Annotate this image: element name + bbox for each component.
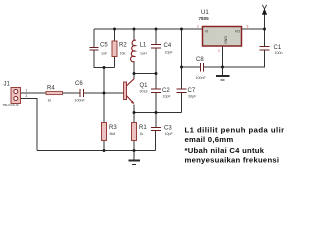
svg-text:10pF: 10pF <box>163 95 172 99</box>
junction U1 output / antenna / C1 <box>263 28 266 31</box>
svg-text:C2: C2 <box>162 88 170 94</box>
node emitter of Q1 <box>133 111 136 114</box>
wire J1 pin2 down <box>21 99 38 151</box>
node base of Q1 <box>103 92 106 95</box>
svg-text:1k: 1k <box>48 99 52 103</box>
svg-text:2: 2 <box>26 94 28 98</box>
wire C6 to base node <box>84 92 104 94</box>
junction supply rail / L1 <box>133 28 136 31</box>
svg-text:L1 dililit penuh pada ulir: L1 dililit penuh pada ulir <box>185 126 285 135</box>
wire gnd row to C1 <box>223 51 265 68</box>
antenna <box>262 5 267 15</box>
svg-text:C3: C3 <box>164 126 172 132</box>
svg-text:9018: 9018 <box>140 90 148 94</box>
wire C4 top lead <box>155 29 157 44</box>
svg-text:menyesuaikan frekuensi: menyesuaikan frekuensi <box>185 156 280 165</box>
svg-text:C6: C6 <box>75 81 83 87</box>
svg-text:10pF: 10pF <box>165 51 174 55</box>
svg-text:R1: R1 <box>139 125 147 131</box>
wire U1 out to antenna node <box>242 28 265 30</box>
resistor R3 <box>102 123 107 141</box>
svg-text:1: 1 <box>26 89 28 93</box>
wire R2 bottom lead <box>114 57 116 68</box>
resistor R4 <box>46 91 63 94</box>
svg-text:email 0,6mm: email 0,6mm <box>185 135 234 144</box>
junction C2 / C3 / emitter row <box>155 111 158 114</box>
junction R3 / bottom rail <box>103 149 106 152</box>
wire base lead <box>104 92 124 94</box>
capacitor C7 <box>177 89 187 93</box>
svg-text:R2: R2 <box>119 43 127 49</box>
wire L1 bottom lead <box>133 62 135 74</box>
wire C1 top lead <box>264 29 266 46</box>
svg-text:J1: J1 <box>4 82 11 88</box>
capacitor C6 <box>80 89 84 97</box>
wire C4 bottom lead <box>155 49 157 74</box>
svg-text:VO: VO <box>235 30 240 34</box>
svg-text:1: 1 <box>197 25 199 29</box>
junction U1 GND / ground line <box>221 66 224 69</box>
svg-text:1uH: 1uH <box>140 52 147 56</box>
wire R3 top lead <box>103 93 105 123</box>
svg-text:30pF: 30pF <box>188 95 197 99</box>
wire R4 to C6 <box>63 92 80 94</box>
wire bottom rail <box>37 150 156 152</box>
svg-text:10k: 10k <box>120 52 126 56</box>
svg-text:100nF: 100nF <box>75 99 86 103</box>
wire R2 top lead <box>114 29 116 41</box>
transistor Q1 <box>124 79 134 104</box>
wire C7 bottom lead <box>181 93 183 113</box>
svg-text:VI: VI <box>205 30 208 34</box>
wire R3 bottom lead <box>103 141 105 151</box>
svg-text:100n: 100n <box>275 51 283 55</box>
svg-text:TBLOCK-I2: TBLOCK-I2 <box>3 103 19 107</box>
svg-text:L1: L1 <box>140 43 147 49</box>
svg-text:6k8: 6k8 <box>110 132 116 136</box>
wire L1 top lead <box>133 29 135 40</box>
svg-text:C5: C5 <box>100 43 108 49</box>
svg-text:C8: C8 <box>196 57 204 63</box>
svg-text:C7: C7 <box>188 88 196 94</box>
wire emitter lead <box>133 105 135 113</box>
svg-text:R4: R4 <box>47 86 55 92</box>
resistor R1 <box>132 123 137 141</box>
junction supply rail / C4 <box>155 28 158 31</box>
svg-text:C4: C4 <box>164 43 172 49</box>
svg-text:1k: 1k <box>140 132 144 136</box>
wire base column <box>103 68 105 94</box>
connector J1 <box>11 88 21 104</box>
svg-text:10pF: 10pF <box>165 132 174 136</box>
resistor R2 <box>112 41 117 57</box>
wire J1 pin1 to R4 <box>21 92 47 94</box>
wire collector lead <box>133 74 135 80</box>
wire C3 bottom lead <box>155 131 157 151</box>
svg-text:3: 3 <box>247 25 249 29</box>
svg-text:1uF: 1uF <box>101 52 108 56</box>
svg-text:GND: GND <box>224 36 228 44</box>
junction C5 / R2 / base column <box>103 66 106 69</box>
wire emitter row <box>134 112 182 114</box>
svg-text:Q1: Q1 <box>140 83 149 89</box>
wire C5 top lead <box>93 29 95 47</box>
wire C5 bottom lead <box>94 50 115 68</box>
wire top rail <box>94 28 203 30</box>
wire C3 top lead <box>155 113 157 128</box>
svg-text:*Ubah nilai C4 untuk: *Ubah nilai C4 untuk <box>185 146 265 155</box>
svg-text:R3: R3 <box>109 125 117 131</box>
svg-text:100nF: 100nF <box>196 76 207 80</box>
junction L1 / collector <box>133 72 136 75</box>
ground bottom rail <box>129 151 141 165</box>
wire R1 leads <box>133 113 135 123</box>
capacitor C1 <box>260 47 270 51</box>
capacitor C4 <box>151 45 161 49</box>
capacitor C8 <box>201 63 204 72</box>
svg-text:7805: 7805 <box>199 16 210 21</box>
wire ground row C8 <box>182 66 201 68</box>
capacitor C3 <box>151 128 161 131</box>
wire C7 column <box>181 29 183 89</box>
junction supply rail / C7 column <box>180 28 183 31</box>
capacitor C5 <box>90 48 99 51</box>
inductor L1 <box>131 40 136 62</box>
wire tank link <box>134 73 156 75</box>
ground under U1 <box>216 67 230 80</box>
junction R1 / ground / bottom rail <box>133 149 136 152</box>
junction C4 / C2 / tank link <box>155 72 158 75</box>
op-amp U1 regulator 7805 <box>203 27 242 47</box>
wire U1 gnd pin <box>222 46 224 67</box>
junction C7 column / C8 line <box>180 66 183 69</box>
junction supply rail / R2 <box>113 28 116 31</box>
wire C2 top lead <box>155 74 157 89</box>
capacitor C2 <box>151 89 161 93</box>
wire C2 bottom lead <box>155 93 157 113</box>
wire antenna stem <box>264 10 266 30</box>
svg-text:2: 2 <box>218 49 220 53</box>
